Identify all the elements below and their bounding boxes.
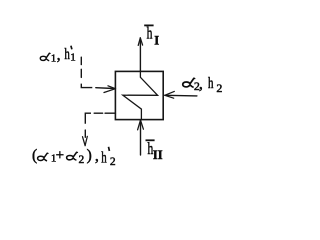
svg-text:2: 2: [216, 81, 222, 95]
svg-text:+: +: [56, 148, 64, 164]
svg-text:2: 2: [110, 156, 116, 168]
svg-text:II: II: [153, 148, 163, 162]
svg-text:1: 1: [70, 51, 76, 63]
svg-text:h: h: [147, 25, 153, 44]
svg-text:): ): [87, 147, 92, 164]
svg-text:(: (: [32, 147, 37, 164]
svg-text:h: h: [101, 148, 107, 166]
svg-text:2: 2: [79, 154, 85, 166]
svg-text:h: h: [64, 45, 70, 63]
svg-text:h: h: [208, 74, 214, 92]
svg-text:,: ,: [95, 148, 99, 165]
svg-text:I: I: [154, 34, 159, 48]
svg-text:,: ,: [57, 47, 61, 64]
svg-text:1: 1: [51, 52, 57, 64]
svg-text:,: ,: [199, 75, 203, 92]
